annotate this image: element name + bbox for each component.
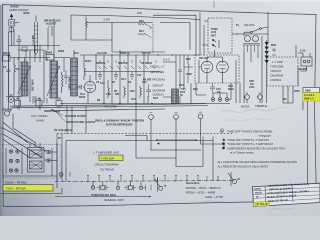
wire revision drop xyxy=(303,101,308,185)
contact dots row xyxy=(87,175,198,176)
switch unit dashed top boundary xyxy=(57,133,232,135)
wire step y52 xyxy=(112,51,165,53)
title left col labels xyxy=(254,188,262,199)
pencil note line 2 xyxy=(225,118,271,121)
resistor R23 xyxy=(138,23,147,25)
LT amplifier unit box xyxy=(66,137,213,182)
label LT AMP TYPE 60/B xyxy=(270,60,284,82)
revision yellow highlight cell xyxy=(303,93,320,102)
resistor R10 xyxy=(108,80,109,98)
wire diag left tuner 5 xyxy=(3,139,30,158)
wire rail y55 xyxy=(10,50,50,58)
capacitor C5 xyxy=(98,72,102,81)
switch contact pair 1 xyxy=(97,185,109,191)
wafer contact row 1 xyxy=(9,150,19,153)
wire aerial down xyxy=(9,26,12,110)
wire box feeders xyxy=(67,106,86,134)
tuning arrow T2 xyxy=(47,66,60,96)
wire left extra verticals xyxy=(26,50,64,104)
valve V3 output xyxy=(201,61,213,73)
top paper edge highlight xyxy=(0,0,320,3)
yellow highlight TYPE 60/P xyxy=(99,155,123,161)
wire vert x112 xyxy=(111,23,113,53)
wire bass treble drops xyxy=(236,60,240,103)
wire diag left tuner 4 xyxy=(3,122,28,143)
wire top bus 1 xyxy=(71,15,200,20)
label 2.2K xyxy=(56,98,61,101)
staircase wire 3 xyxy=(176,119,203,166)
wire grid ticks y66 xyxy=(100,60,156,63)
label CD/750/1/D xyxy=(100,168,114,172)
serial line 3 xyxy=(205,195,223,199)
wire sw xyxy=(244,12,268,42)
output stage dashed box xyxy=(195,55,239,83)
label W10 xyxy=(180,91,186,97)
revision yellow text xyxy=(304,94,315,101)
note line components mounted xyxy=(222,146,286,150)
left paper edge shadow xyxy=(0,5,4,216)
tuning arrow T1 xyxy=(18,66,31,94)
label VR4 WKG xyxy=(228,85,234,91)
label CIRCUIT DIAGRAM xyxy=(95,163,120,167)
trimmer box TC3 xyxy=(56,101,62,107)
capacitor C18 xyxy=(210,83,215,93)
title yellow text xyxy=(255,203,268,207)
choke L2 tall xyxy=(71,58,78,96)
arrow to socket xyxy=(48,26,50,29)
label R22 2.2M xyxy=(104,11,143,22)
dashed selector column xyxy=(152,24,154,53)
pickup coupling box xyxy=(34,22,37,53)
junction circle a xyxy=(149,113,154,120)
title yellow cell xyxy=(253,202,269,207)
revision label xyxy=(305,90,311,93)
wire step y40 xyxy=(71,39,112,41)
capacitor C2 left xyxy=(6,62,11,95)
mains plug box xyxy=(298,53,312,71)
wire vert x71 xyxy=(70,15,72,40)
cap C14 xyxy=(178,65,182,77)
label SW/Cs M.W.ON xyxy=(95,120,144,127)
wire avc xyxy=(163,62,180,104)
trimmer box TC1 xyxy=(15,101,21,107)
rectifier MR1 diode stack xyxy=(265,40,269,66)
resistor R21 xyxy=(85,17,87,28)
resistor R12 xyxy=(140,86,141,98)
label 10D7 MAX rotated xyxy=(32,79,35,92)
wire center rail y55 xyxy=(80,54,200,56)
title row3 xyxy=(267,190,309,195)
wire diag left tuner 1 xyxy=(3,128,46,151)
aux socket dashed panel xyxy=(208,18,232,53)
label 3.3K xyxy=(36,98,41,101)
capacitor C8 xyxy=(130,72,134,81)
relay box SW6 xyxy=(128,186,132,190)
label R23 R24 xyxy=(139,20,144,33)
label output valves xyxy=(199,57,209,60)
wafer contact row 3 xyxy=(9,169,18,172)
wire sockets leads xyxy=(153,13,200,56)
coupling box under rail xyxy=(22,47,27,51)
switch SW/6 box xyxy=(46,55,54,61)
wire mesh left-mid xyxy=(18,45,44,110)
label SWITCH PANEL EARTH xyxy=(66,121,96,124)
pencil under serial xyxy=(205,200,225,201)
switch circle b xyxy=(116,186,119,189)
wire rail y96 left xyxy=(6,96,22,98)
capacitor C6 xyxy=(114,72,118,81)
label C18 2% xyxy=(216,88,221,94)
label SW-OFF xyxy=(236,23,255,27)
capacitor C7 xyxy=(64,70,68,84)
resistor R2 left xyxy=(14,58,15,96)
wire top-left rails xyxy=(9,19,75,62)
wire socket outer leads xyxy=(202,21,238,55)
note line A take off switch panel xyxy=(220,129,273,134)
label A.V.C xyxy=(163,58,170,62)
switch circle c xyxy=(139,186,142,189)
wire grid mid rail xyxy=(84,71,160,73)
title row4 xyxy=(267,194,297,199)
dashed box LT AMP 60/B xyxy=(267,57,298,86)
wire top bus 2 xyxy=(86,22,153,24)
label ON/OFF swing xyxy=(44,110,61,113)
resistor R24 xyxy=(138,33,147,35)
wire tuner links xyxy=(3,143,57,188)
label TUNER M/L/NG SW/a xyxy=(91,194,116,197)
wire ps rails xyxy=(236,34,268,103)
switch symbol circle-cross left xyxy=(59,172,70,177)
potentiometer VR6 xyxy=(257,92,262,103)
wire bank verticals xyxy=(93,176,218,186)
title block outer xyxy=(253,183,320,206)
switch contact dashes row xyxy=(98,66,155,69)
grid cap C9 xyxy=(76,85,84,89)
on-off switch xyxy=(252,29,260,33)
serial nos heading xyxy=(186,181,200,185)
label T209 RF26A on yellow xyxy=(6,187,27,191)
wire vert x86 xyxy=(85,28,87,40)
IF transformer T2 xyxy=(50,61,58,98)
contact ticks row xyxy=(88,176,207,182)
bottom-left corner shadow xyxy=(0,60,180,216)
wire center verticals xyxy=(96,50,148,104)
wire extra verticals out stage xyxy=(179,55,181,89)
junction circle b xyxy=(174,112,179,119)
wire long bus y110 xyxy=(10,103,230,112)
revision table white cell xyxy=(303,88,320,93)
label IMP MAX AUX xyxy=(44,20,61,26)
title row2 xyxy=(269,187,292,191)
wire avc vertical x172 xyxy=(163,55,176,97)
trimmer box TC2 xyxy=(36,101,42,107)
label VR5 VR6 xyxy=(249,80,254,89)
text block KYEKLL LT xyxy=(150,65,166,97)
wire left bottoms xyxy=(9,55,15,97)
label RADIO GRAM PICKUP xyxy=(9,6,30,15)
switch unit dash-dot boundary xyxy=(55,181,232,182)
resistor R11 xyxy=(124,86,125,98)
yellow highlight T209 xyxy=(3,185,53,192)
aerial coil box AE1 xyxy=(9,20,15,27)
wire left vertical x18 xyxy=(18,46,20,110)
potentiometer VR5 xyxy=(244,92,249,103)
texture labels center band xyxy=(58,50,198,102)
capacitor C1 xyxy=(17,35,22,46)
capacitor C15 xyxy=(146,84,151,97)
wire lower rail y103 xyxy=(60,103,206,105)
capacitor C20 plus xyxy=(272,48,276,55)
relay box SW5 xyxy=(101,186,105,190)
label Rx CO MAX xyxy=(54,129,72,132)
IF transformer T1 xyxy=(21,62,28,96)
tuner dotted enclosure xyxy=(3,145,62,179)
pencil under table xyxy=(270,208,294,210)
serial line 2 xyxy=(186,190,216,194)
junction dots y55 xyxy=(95,54,172,55)
wire left frame stub y55-110 xyxy=(3,54,9,56)
wire right spur verticals xyxy=(283,86,293,103)
label T209A RF26/L xyxy=(5,181,28,185)
label GENERAL SW/T xyxy=(104,198,125,202)
wire otx xyxy=(184,55,206,104)
note line triangle take off xyxy=(222,138,269,142)
label C5 xyxy=(96,79,158,101)
valve V0 small xyxy=(8,97,14,103)
title header xyxy=(268,183,310,188)
label C-MFD rotated xyxy=(69,76,72,90)
label VOL 3A05 xyxy=(104,105,117,109)
resistor R4 xyxy=(84,64,86,80)
wire pickup drops xyxy=(36,16,52,55)
wire right-column verticals xyxy=(296,45,307,86)
note all resistor values xyxy=(218,164,269,168)
staircase wire 4 xyxy=(201,119,225,149)
tuning gang box xyxy=(28,148,45,173)
mains transformer T4 xyxy=(243,36,260,53)
label 1.5K xyxy=(14,98,19,101)
wire above box xyxy=(125,136,196,141)
aerial input arrow xyxy=(10,14,13,20)
note line type 60T xyxy=(259,134,272,138)
socket contacts xyxy=(213,40,219,48)
wire output cathodes xyxy=(199,50,223,83)
node dot A xyxy=(8,55,9,56)
output transformer T3 xyxy=(172,89,179,104)
switch arm A xyxy=(155,178,167,192)
wire valve cathode xyxy=(84,55,90,104)
tick above frame xyxy=(213,1,215,8)
pentode switch row labels xyxy=(96,62,153,65)
switch SW/4a box xyxy=(3,55,11,61)
valve V1 triode xyxy=(84,81,95,92)
label CHASSIS EARTH xyxy=(65,115,87,118)
aerial trimmer box xyxy=(9,28,14,32)
top-right corner light xyxy=(160,0,320,110)
staircase wire 1 xyxy=(136,105,176,158)
resistor R18 vert xyxy=(188,55,189,83)
note line in chassis wiring xyxy=(230,151,254,155)
speaker terminals xyxy=(211,98,229,102)
junction dot bus end xyxy=(149,196,151,198)
pencil note line 1 xyxy=(222,107,286,112)
junction circle c xyxy=(198,112,203,119)
label TWIN AUX SKT xyxy=(211,28,218,37)
wafer contact row 2 xyxy=(9,159,19,162)
label TH1 DF96 xyxy=(79,93,86,99)
title block rows xyxy=(253,187,320,202)
scan grain overlay xyxy=(0,0,1,1)
component labels center xyxy=(100,81,147,101)
switch arrow contacts xyxy=(148,25,152,38)
wire diag left tuner 3 xyxy=(13,114,36,144)
pencil mark bottom-left xyxy=(26,208,53,210)
serial line 1 xyxy=(186,186,222,190)
resistor R3 vertical zigzag xyxy=(62,72,64,93)
label BASS TREBLE xyxy=(241,104,267,109)
switch arm M xyxy=(228,172,240,186)
wire terminals xyxy=(213,83,231,100)
wire short rails left xyxy=(9,23,20,46)
label M2 xyxy=(283,90,300,101)
switch circle a xyxy=(91,186,94,189)
wafer contact right pair xyxy=(47,150,50,162)
junction dots above box xyxy=(156,139,197,144)
label A.M. TUNING GANG xyxy=(31,114,48,122)
trimmer arrows xyxy=(16,107,60,109)
valve V4 output xyxy=(217,61,229,73)
wire below tuner xyxy=(1,188,63,194)
label L.T AMPLIFIER UNIT xyxy=(94,151,120,155)
switch contact pair 2 xyxy=(124,185,136,191)
wire boundary stubs xyxy=(57,134,62,182)
wire bottom bus xyxy=(55,196,150,198)
staircase wire 2 xyxy=(151,119,201,150)
title block left col xyxy=(265,185,293,206)
switch contact pair 3 xyxy=(143,185,151,191)
title row5 xyxy=(268,199,288,203)
label C2 R2 xyxy=(3,66,20,71)
junction dots rail xyxy=(103,103,152,104)
label mains xyxy=(299,50,307,72)
label TYPE 60/P xyxy=(101,157,115,161)
note line square take off xyxy=(222,142,273,146)
switch SW/C32 circled xyxy=(2,109,12,117)
wire bottom-left frame area xyxy=(1,128,3,134)
wire diag left tuner 2 xyxy=(3,134,42,157)
label R15 C21 xyxy=(179,84,186,91)
label MR1 xyxy=(271,44,277,47)
note all capacitor values xyxy=(218,160,298,164)
